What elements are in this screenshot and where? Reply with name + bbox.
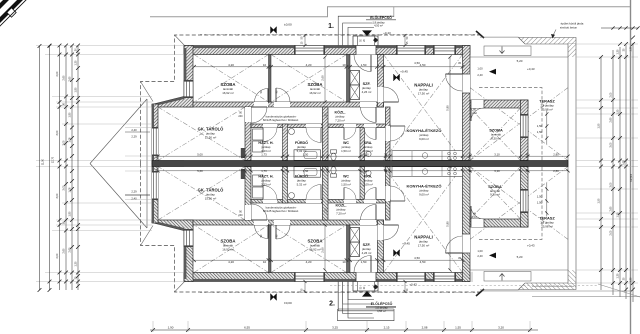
svg-text:4,26 m²: 4,26 m² — [362, 251, 372, 255]
dim line near party wall — [156, 155, 569, 158]
svg-text:2,60: 2,60 — [321, 247, 325, 253]
svg-text:45: 45 — [525, 152, 529, 156]
sheet border right edge — [630, 0, 632, 334]
bottom label leader boxes — [338, 282, 397, 321]
svg-text:3,10: 3,10 — [494, 169, 500, 173]
svg-text:17,50 m²: 17,50 m² — [418, 91, 429, 95]
exterior wall garage left — [152, 104, 158, 164]
svg-text:2,40: 2,40 — [477, 254, 483, 258]
svg-text:1,55: 1,55 — [617, 109, 620, 114]
right dim chain 4 — [624, 42, 628, 299]
extension lines left — [36, 46, 184, 161]
svg-text:1,30: 1,30 — [630, 46, 633, 51]
kitchen counter konyha — [392, 151, 463, 161]
svg-text:1,55: 1,55 — [455, 325, 461, 329]
svg-text:60/125 légbeszívó / fűtőkész.: 60/125 légbeszívó / fűtőkész. — [263, 118, 299, 122]
interior wall szoba1-szoba2 — [269, 55, 272, 103]
svg-text:30: 30 — [384, 169, 388, 173]
svg-text:5,00: 5,00 — [197, 152, 203, 156]
svg-text:10: 10 — [263, 260, 267, 264]
svg-text:2,80: 2,80 — [553, 152, 559, 156]
washer dryer hazt — [253, 129, 264, 140]
svg-text:2,00: 2,00 — [56, 71, 59, 76]
svg-text:30: 30 — [384, 152, 388, 156]
bottom sidewalk outline lines — [472, 272, 640, 297]
entrance label leader boxes — [338, 16, 396, 45]
svg-text:1,50: 1,50 — [361, 63, 367, 67]
svg-text:6,55: 6,55 — [244, 325, 250, 329]
svg-text:10: 10 — [342, 63, 346, 67]
right dim chain 3 — [618, 42, 622, 297]
svg-text:1,8 járólap: 1,8 járólap — [375, 306, 388, 310]
window szoba1 left wall — [184, 80, 193, 98]
door kra — [364, 124, 376, 128]
svg-text:16,92 m²: 16,92 m² — [222, 247, 233, 251]
boiler garage — [241, 148, 245, 158]
svg-text:4,20: 4,20 — [228, 260, 234, 264]
interior wall szf right — [378, 55, 384, 108]
interior wall wc-kra — [360, 128, 365, 161]
svg-text:2,80: 2,80 — [553, 169, 559, 173]
level mark 0,00 top — [270, 27, 276, 33]
svg-text:1,50: 1,50 — [598, 123, 601, 128]
left dim chain 1 overall — [38, 44, 42, 292]
bathtub furdo — [294, 150, 321, 161]
entrance stairs — [353, 36, 378, 46]
svg-text:1,80: 1,80 — [69, 211, 72, 216]
svg-text:2,40: 2,40 — [131, 196, 137, 200]
svg-text:60/125 légbeszívó / fűtőkész.: 60/125 légbeszívó / fűtőkész. — [263, 209, 299, 213]
svg-text:2,29: 2,29 — [131, 135, 137, 139]
door garage to corridor — [245, 107, 251, 122]
washbasin furdo — [289, 129, 295, 135]
level mark nappali upper — [393, 74, 399, 80]
wall szoba-terasz top — [470, 100, 528, 108]
svg-text:2,40: 2,40 — [477, 73, 483, 77]
sidewalk corner diagonal bottom right — [598, 284, 640, 297]
svg-text:5,80: 5,80 — [445, 221, 449, 227]
svg-text:1,06: 1,06 — [69, 137, 72, 142]
svg-text:+0,43: +0,43 — [527, 67, 535, 71]
svg-text:1,50: 1,50 — [303, 152, 309, 156]
svg-text:2,10: 2,10 — [472, 216, 477, 219]
svg-text:9,00 m²: 9,00 m² — [419, 137, 429, 141]
svg-text:3,00: 3,00 — [610, 182, 613, 187]
wall szoba-terasz east — [521, 100, 529, 161]
window nappali top 2 — [433, 46, 456, 55]
entrance triangles — [362, 30, 372, 36]
svg-text:2,60: 2,60 — [69, 76, 72, 81]
svg-text:4,50: 4,50 — [420, 63, 426, 67]
exterior wall left (room block) — [184, 46, 193, 108]
left dim chain 4 — [64, 44, 68, 290]
terrace edge line — [470, 56, 568, 58]
svg-text:1,50: 1,50 — [537, 124, 543, 128]
svg-text:2.: 2. — [329, 301, 335, 308]
svg-text:12,53: 12,53 — [629, 174, 633, 182]
svg-text:+0,43: +0,43 — [527, 244, 535, 248]
svg-text:ELŐLÉPCSŐ: ELŐLÉPCSŐ — [371, 301, 393, 306]
right dim chain 5 — [631, 36, 635, 302]
svg-text:3,20: 3,20 — [498, 325, 504, 329]
svg-text:3,00: 3,00 — [610, 142, 613, 147]
svg-text:9,00 m²: 9,00 m² — [419, 192, 429, 196]
door wc — [344, 124, 356, 128]
svg-text:3,00: 3,00 — [63, 140, 66, 145]
left dim chain 6 — [76, 44, 80, 290]
svg-text:1,55: 1,55 — [617, 212, 620, 217]
svg-text:2,60: 2,60 — [69, 247, 72, 252]
terrace dashed boundary — [479, 88, 542, 161]
door szf to nappali — [378, 87, 384, 102]
roof hip triangle left of garage — [90, 99, 147, 228]
svg-text:2,60: 2,60 — [63, 248, 66, 253]
svg-text:+0,43: +0,43 — [409, 282, 417, 286]
level mark nappali lower — [393, 250, 399, 256]
svg-text:2,40: 2,40 — [131, 128, 137, 132]
terasz door triangles — [489, 69, 496, 75]
svg-text:3,00: 3,00 — [63, 185, 66, 190]
svg-text:16,92 m²: 16,92 m² — [309, 91, 320, 95]
extension lines right — [576, 44, 638, 161]
right dim chain 1 — [599, 55, 603, 290]
svg-text:2,60: 2,60 — [610, 117, 613, 122]
svg-text:1,73: 1,73 — [261, 152, 267, 156]
svg-text:9,30 m²: 9,30 m² — [490, 193, 500, 197]
svg-text:1,50: 1,50 — [361, 260, 367, 264]
corner section mark top-left — [0, 0, 28, 28]
svg-text:4,50: 4,50 — [414, 256, 420, 260]
svg-text:4,20: 4,20 — [306, 260, 312, 264]
svg-text:1,00: 1,00 — [477, 249, 483, 253]
svg-text:11,50: 11,50 — [42, 158, 45, 165]
door szoba-right to terasz — [471, 100, 484, 108]
level mark 0,00 bottom — [270, 294, 276, 300]
svg-text:25,98 m²: 25,98 m² — [541, 107, 552, 111]
garage door dim stub — [125, 131, 150, 133]
svg-text:4,50: 4,50 — [414, 61, 420, 65]
bottom dashed level line — [330, 285, 598, 287]
svg-text:1,50: 1,50 — [537, 130, 543, 134]
svg-text:45: 45 — [458, 61, 461, 65]
svg-text:4,20: 4,20 — [228, 63, 234, 67]
svg-text:±0,00: ±0,00 — [284, 301, 292, 305]
svg-text:16,92 m²: 16,92 m² — [309, 247, 320, 251]
svg-text:3,23 m²: 3,23 m² — [261, 182, 271, 186]
svg-text:+0,45: +0,45 — [402, 242, 410, 246]
svg-text:240: 240 — [238, 214, 243, 217]
bottom extension stubs — [153, 321, 530, 332]
exterior wall top — [184, 46, 470, 55]
svg-text:5,20: 5,20 — [517, 255, 523, 259]
svg-text:4,50 m²: 4,50 m² — [377, 309, 386, 313]
svg-text:1,30: 1,30 — [75, 261, 78, 266]
interior wall kra-konyha — [386, 107, 391, 161]
svg-text:16,92 m²: 16,92 m² — [222, 91, 233, 95]
washbasin kra — [366, 151, 371, 156]
svg-text:1,06: 1,06 — [69, 187, 72, 192]
svg-text:1,30: 1,30 — [75, 60, 78, 65]
sidewalk corner hatch right — [568, 44, 576, 57]
left dim chain 2 — [48, 44, 52, 292]
svg-text:25,98 m²: 25,98 m² — [541, 224, 552, 228]
svg-text:2,60: 2,60 — [63, 75, 66, 80]
svg-text:3,00: 3,00 — [56, 130, 59, 135]
toilet wc — [331, 150, 337, 153]
level diamond entrance bottom — [373, 284, 378, 289]
svg-text:1,30: 1,30 — [325, 113, 328, 118]
svg-text:10: 10 — [263, 63, 267, 67]
interior wall szf left — [347, 55, 351, 103]
svg-text:1,30: 1,30 — [325, 208, 328, 213]
svg-text:+0,43: +0,43 — [383, 31, 391, 35]
window nappali top 1 — [396, 46, 426, 55]
svg-text:3,00: 3,00 — [56, 193, 59, 198]
svg-text:2,08: 2,08 — [422, 325, 428, 329]
svg-text:1,50 m²: 1,50 m² — [341, 149, 351, 153]
svg-text:2,09 m²: 2,09 m² — [363, 182, 373, 186]
svg-text:2,00: 2,00 — [56, 253, 59, 258]
svg-text:45: 45 — [458, 256, 461, 260]
chimney double flue — [350, 71, 360, 100]
svg-text:240: 240 — [238, 115, 243, 118]
door szoba1 — [254, 102, 268, 107]
drainage box with arrow — [484, 46, 531, 56]
svg-text:5,20: 5,20 — [517, 59, 523, 63]
door szoba2 — [274, 102, 290, 107]
sheet boundary polyline top — [150, 7, 630, 17]
interior wall garage right — [245, 107, 251, 161]
svg-text:10: 10 — [468, 152, 472, 156]
svg-text:1,50 m²: 1,50 m² — [341, 182, 351, 186]
svg-text:1,80: 1,80 — [69, 112, 72, 117]
svg-text:45: 45 — [525, 169, 529, 173]
entrance door leaf+swing — [370, 55, 372, 72]
svg-text:1,00: 1,00 — [477, 67, 483, 71]
svg-text:1.: 1. — [328, 23, 334, 30]
svg-text:2,15: 2,15 — [384, 325, 390, 329]
svg-text:4,50 m²: 4,50 m² — [374, 23, 383, 27]
left dim chain 3 — [58, 44, 62, 290]
svg-text:9,30 m²: 9,30 m² — [491, 136, 501, 140]
sidewalk edge lines right — [567, 44, 569, 164]
party wall — [152, 161, 568, 167]
entrance door opening — [356, 46, 376, 55]
sheet boundary drop at entrance label — [393, 7, 395, 17]
door kozl to konyha — [386, 126, 391, 141]
svg-text:1,30: 1,30 — [617, 273, 620, 278]
level diamond entrance top — [373, 38, 378, 43]
svg-text:3,10: 3,10 — [494, 152, 500, 156]
svg-text:1,90: 1,90 — [168, 325, 174, 329]
svg-text:4,26 m²: 4,26 m² — [362, 90, 372, 94]
dim line szoba band — [192, 65, 464, 69]
left dim chain 5 — [70, 44, 74, 290]
dim line szoba2 vertical — [323, 55, 326, 103]
svg-text:15,50 m²: 15,50 m² — [205, 196, 216, 200]
svg-text:2,60: 2,60 — [610, 206, 613, 211]
svg-text:10: 10 — [342, 260, 346, 264]
svg-text:2,29: 2,29 — [131, 190, 137, 194]
svg-text:10: 10 — [468, 169, 472, 173]
svg-text:1,10: 1,10 — [363, 152, 369, 156]
svg-text:±0,00: ±0,00 — [284, 23, 292, 27]
svg-text:ELŐLÉPCSŐ: ELŐLÉPCSŐ — [370, 15, 392, 20]
svg-text:1,50: 1,50 — [537, 194, 543, 198]
svg-text:+0,45: +0,45 — [400, 69, 408, 73]
svg-text:2,60: 2,60 — [321, 75, 325, 81]
svg-text:1,50: 1,50 — [598, 198, 601, 203]
svg-text:1,50: 1,50 — [537, 201, 543, 205]
svg-text:7,20 m²: 7,20 m² — [335, 118, 345, 122]
door szf to kozl — [360, 102, 376, 107]
svg-text:1,50: 1,50 — [303, 169, 309, 173]
svg-text:1,73: 1,73 — [261, 169, 267, 173]
svg-text:simított beton: simított beton — [560, 26, 578, 30]
svg-text:3,25: 3,25 — [332, 325, 338, 329]
svg-text:17,50 m²: 17,50 m² — [418, 243, 429, 247]
svg-text:4,20: 4,20 — [306, 63, 312, 67]
svg-text:2,10: 2,10 — [472, 112, 477, 115]
svg-text:1,30: 1,30 — [617, 49, 620, 54]
wall shoulder garage top — [152, 97, 193, 108]
interior wall hazt-furdo — [283, 124, 288, 161]
sidewalk hatched band top right — [519, 38, 577, 45]
top right chain stubs — [601, 26, 640, 29]
lower unit mirrored — [36, 164, 638, 311]
window szoba2 top — [294, 46, 325, 55]
interior wall furdo-wc — [323, 107, 329, 161]
svg-text:1,80: 1,80 — [75, 87, 78, 92]
svg-text:2,05: 2,05 — [610, 230, 613, 235]
svg-text:15,50 m²: 15,50 m² — [205, 135, 216, 139]
door hazt — [263, 124, 277, 128]
svg-text:2,68: 2,68 — [623, 160, 626, 165]
level dashed line +0,43 — [200, 33, 481, 35]
right dim chain 2 — [611, 50, 615, 295]
dim line window terasz — [545, 111, 548, 145]
garage door left wall — [152, 127, 158, 156]
svg-text:7,20 m²: 7,20 m² — [336, 211, 346, 215]
interior wall corridor bottom — [251, 124, 390, 128]
svg-text:5,80: 5,80 — [445, 105, 449, 111]
sidewalk boundary line — [480, 36, 519, 38]
dim line nappali vertical — [448, 55, 451, 162]
ceiling span crosses — [158, 55, 568, 161]
svg-text:5,32 m²: 5,32 m² — [297, 182, 307, 186]
svg-text:12,70: 12,70 — [52, 156, 55, 163]
wall east of nappali — [463, 46, 471, 161]
svg-text:4,50: 4,50 — [420, 260, 426, 264]
roof hip diagonal top-left — [175, 35, 186, 46]
window szoba-right east wall — [521, 114, 529, 138]
svg-text:1,30: 1,30 — [630, 277, 633, 282]
terasz door in nappali east wall — [463, 74, 471, 93]
svg-text:1,10: 1,10 — [363, 169, 369, 173]
svg-text:5,00: 5,00 — [197, 169, 203, 173]
svg-text:2,05: 2,05 — [610, 92, 613, 97]
interior wall szoba band bottom — [193, 102, 384, 107]
overhang dim stubs top — [304, 34, 407, 47]
roof overhang dashed outline — [141, 35, 482, 164]
door furdo — [306, 124, 321, 128]
bottom dim chain — [150, 328, 538, 332]
